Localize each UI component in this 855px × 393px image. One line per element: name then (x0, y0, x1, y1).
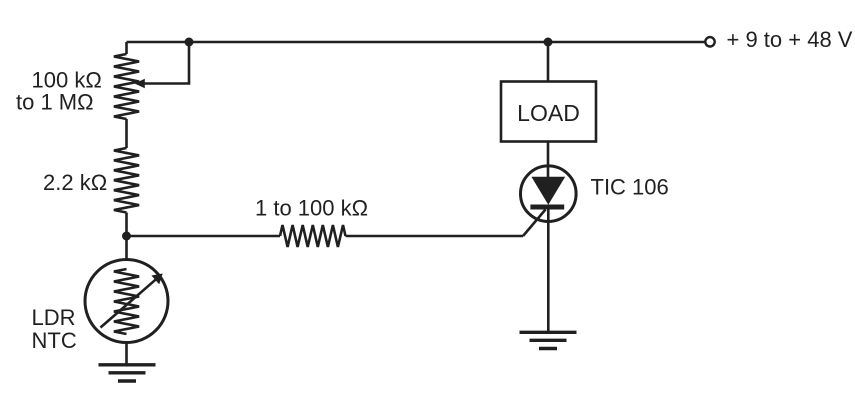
svg-text:TIC 106: TIC 106 (591, 175, 669, 200)
potentiometer R1 body (100 kΩ to 1 MΩ) (114, 54, 139, 119)
wire: supply rail down to LOAD (547, 42, 550, 82)
LDR/NTC sensor circle (85, 260, 168, 343)
LDR/NTC resistive element (114, 269, 139, 334)
terminal: open circle supply input (705, 37, 714, 46)
node: junction of LOAD branch on supply rail (544, 38, 553, 47)
LDR/NTC arrowhead (151, 274, 162, 285)
wire: SCR gate lead diagonal (523, 210, 546, 237)
wire: supply rail down to potentiometer top (125, 42, 128, 54)
resistor R3 (1 to 100 kΩ) (280, 225, 346, 247)
svg-text:1 to 100 kΩ: 1 to 100 kΩ (255, 196, 368, 221)
wire: top supply rail (127, 41, 705, 44)
svg-text:LOAD: LOAD (517, 100, 580, 126)
node: divider node (R2 / LDR / gate resistor) (122, 232, 131, 241)
svg-text:to 1 MΩ: to 1 MΩ (16, 90, 94, 115)
LDR/NTC variability arrow (101, 280, 156, 328)
potentiometer wiper arrowhead (135, 79, 145, 88)
node: junction of wiper branch on supply rail (185, 38, 194, 47)
svg-text:LDR: LDR (32, 305, 76, 330)
wire: gate resistor to SCR gate elbow (346, 235, 524, 238)
wire: potentiometer bottom to resistor R2 top (125, 119, 128, 148)
wire: LDR bottom to ground (125, 343, 128, 365)
svg-text:+ 9 to + 48 V: + 9 to + 48 V (727, 27, 853, 52)
svg-text:NTC: NTC (32, 328, 77, 353)
wire: SCR cathode to ground (547, 207, 550, 331)
ground (right, under SCR) (520, 332, 577, 348)
ground (left, under LDR) (99, 365, 156, 381)
wire: potentiometer wiper from junction (144, 42, 189, 84)
wire: divider node down to LDR (125, 236, 128, 260)
SCR U1 (TIC 106) circle (521, 166, 577, 222)
resistor R2 (2.2 kΩ) (114, 148, 139, 213)
wire: R2 bottom to divider node (125, 213, 128, 237)
svg-text:2.2 kΩ: 2.2 kΩ (43, 170, 107, 195)
SCR anode-cathode triangle (531, 177, 565, 205)
wire: divider node to gate resistor (127, 235, 281, 238)
SCR cathode bar (530, 205, 564, 210)
wire: LOAD bottom to SCR anode (547, 142, 550, 178)
LOAD box (501, 82, 596, 142)
